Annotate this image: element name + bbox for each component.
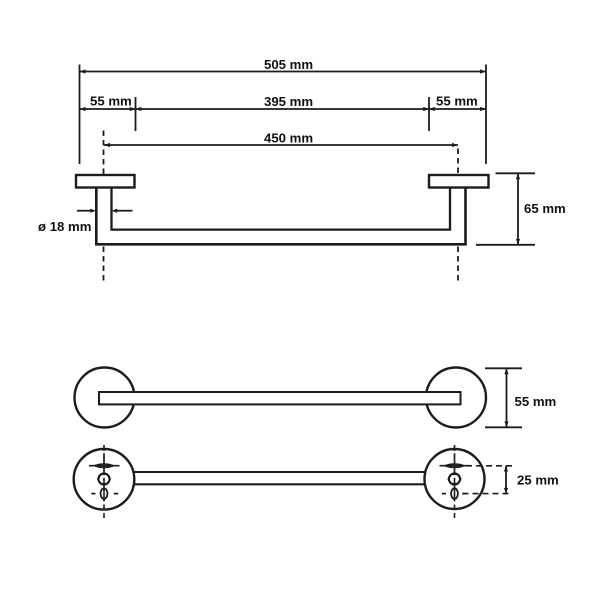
svg-text:450 mm: 450 mm [264,131,313,146]
svg-text:505 mm: 505 mm [264,57,313,72]
svg-text:25 mm: 25 mm [517,473,559,488]
svg-text:65 mm: 65 mm [524,201,566,216]
svg-text:55 mm: 55 mm [515,394,557,409]
svg-text:ø 18 mm: ø 18 mm [38,219,92,234]
svg-text:55 mm: 55 mm [436,94,478,109]
svg-text:55 mm: 55 mm [90,94,132,109]
svg-text:395 mm: 395 mm [264,94,313,109]
